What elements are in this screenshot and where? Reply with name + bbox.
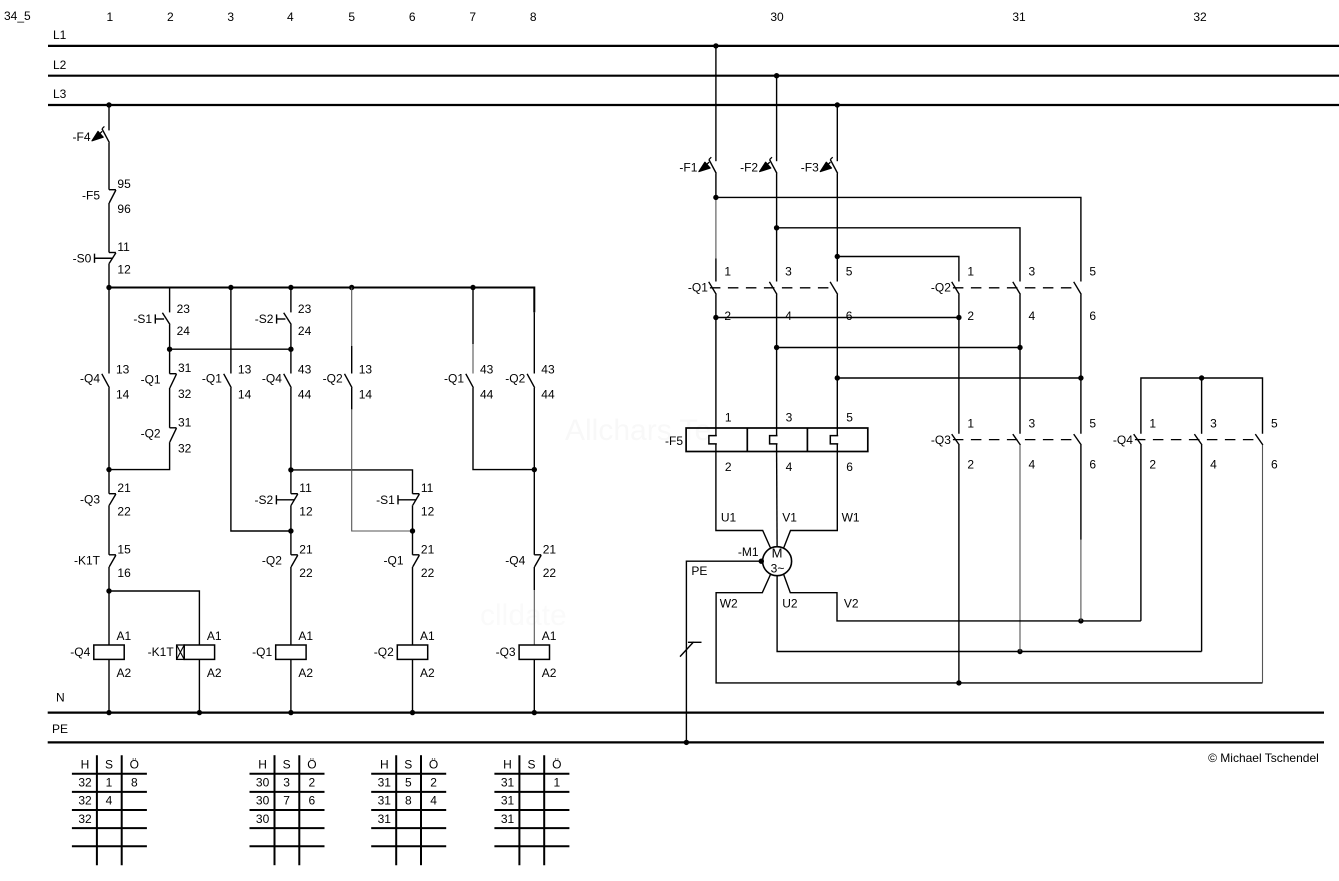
svg-text:34_5: 34_5 [4, 9, 31, 23]
svg-text:32: 32 [1193, 10, 1207, 24]
junction W2 bus / -Q3 pole1 [956, 680, 961, 685]
junction L1 / -F1 [713, 43, 718, 48]
svg-text:1: 1 [967, 417, 974, 431]
svg-text:-F2: -F2 [740, 160, 758, 174]
wire node to -Q4 21 [533, 470, 535, 555]
junction PE rail / motor [684, 740, 689, 745]
wire -Q4 coil to N [108, 659, 110, 712]
label U1 [721, 510, 737, 524]
overload relay -F5 [665, 411, 868, 474]
svg-text:H: H [503, 757, 512, 771]
svg-text:A1: A1 [420, 629, 435, 643]
svg-text:-Q2: -Q2 [323, 372, 343, 386]
svg-text:21: 21 [543, 542, 557, 556]
wire branch to -K1T coil [109, 591, 199, 645]
svg-text:13: 13 [359, 362, 373, 376]
svg-text:A2: A2 [117, 666, 132, 680]
wire -Q4 22 to -Q3 coil lower [533, 590, 535, 645]
wire -F5.6 to motor W1 [784, 452, 838, 549]
wire L2 rail [48, 75, 1339, 77]
contactor -Q2 pole 1-2 [931, 264, 975, 323]
label U2 [782, 597, 798, 611]
breaker -F4 [73, 126, 110, 144]
pushbutton -S2 11-12 [255, 481, 313, 518]
wire motor V2 to bus [784, 574, 1141, 621]
coil -Q1 [252, 629, 313, 680]
wire L3 to -F3 [836, 105, 838, 161]
svg-text:Ö: Ö [307, 757, 316, 771]
wire node to -Q1 21 [412, 531, 414, 555]
contact -Q2 21-22 [262, 542, 313, 580]
svg-text:V1: V1 [782, 510, 797, 524]
svg-text:H: H [258, 757, 267, 771]
svg-text:6: 6 [1089, 457, 1096, 471]
junction col1 / holding branch [106, 467, 111, 472]
svg-text:3: 3 [1029, 417, 1036, 431]
wire -F4 to -F5 [108, 143, 110, 190]
svg-text:6: 6 [846, 460, 853, 474]
svg-text:12: 12 [299, 505, 313, 519]
wire rail to -Q2 13 lower [351, 346, 353, 374]
svg-text:21: 21 [299, 542, 313, 556]
label L2 [53, 58, 67, 72]
svg-text:2: 2 [167, 10, 174, 24]
contact -Q4 13-14 [80, 362, 130, 401]
svg-text:-K1T: -K1T [74, 554, 101, 568]
wire -Q3 coil to N [533, 659, 535, 712]
svg-text:2: 2 [967, 457, 974, 471]
motor -M1 [738, 545, 792, 576]
svg-text:31: 31 [178, 415, 192, 429]
svg-text:-Q2: -Q2 [505, 372, 525, 386]
svg-text:2: 2 [1149, 457, 1156, 471]
svg-text:-F5: -F5 [82, 188, 100, 202]
wire -Q2.2 to -Q3 pole1 [958, 295, 960, 434]
svg-text:31: 31 [501, 794, 515, 808]
junction N rail / -Q2 coil [410, 710, 415, 715]
junction -Q1.6 / tie [835, 375, 840, 380]
contact -Q2 31-32 [141, 415, 192, 455]
svg-text:30: 30 [256, 794, 270, 808]
wire -S1 12 to node [412, 505, 414, 531]
svg-text:6: 6 [1089, 309, 1096, 323]
wire -Q1 32 to -Q2 31 [169, 388, 171, 428]
wire -Q2.4 to -Q3 pole3 [1019, 295, 1021, 434]
junction coil branch -Q4/-K1T [106, 588, 111, 593]
svg-text:30: 30 [256, 812, 270, 826]
svg-text:2: 2 [724, 309, 731, 323]
wire -F5.4 to motor V1 [776, 452, 779, 547]
pushbutton -S1 23-24 [133, 302, 190, 338]
svg-text:-Q4: -Q4 [80, 372, 100, 386]
svg-text:4: 4 [1029, 457, 1036, 471]
svg-text:PE: PE [52, 722, 68, 736]
junction -Q2.6 / tie [1078, 375, 1083, 380]
svg-text:A2: A2 [420, 666, 435, 680]
wire -Q2.6 to -Q3 pole5 [1080, 295, 1082, 434]
wire -Q2 coil to N [412, 659, 414, 712]
svg-text:31: 31 [378, 794, 392, 808]
svg-text:4: 4 [786, 460, 793, 474]
pushbutton -S0 11-12 [73, 240, 131, 277]
junction -Q1.2 / tie [713, 315, 718, 320]
contactor -Q3 pole 3-4 [1013, 417, 1036, 472]
wire tie -Q1.4 to -Q2.4 [777, 347, 1020, 349]
svg-text:1: 1 [1149, 417, 1156, 431]
wire N rail [48, 711, 1324, 713]
wire feed L3 to -Q2 pole1 [837, 257, 959, 282]
labels column numbers 30 31 32 [770, 10, 1207, 24]
contact -Q2 43-44 [505, 362, 555, 401]
junction star bridge / -Q4 pole3 [1199, 375, 1204, 380]
svg-text:L3: L3 [53, 87, 67, 101]
svg-text:24: 24 [298, 324, 312, 338]
svg-text:-Q2: -Q2 [141, 427, 161, 441]
junction N rail / -Q4 coil [106, 710, 111, 715]
svg-text:4: 4 [430, 794, 437, 808]
svg-text:L2: L2 [53, 58, 67, 72]
wire L3 to -F4 [108, 105, 110, 130]
svg-text:31: 31 [1012, 10, 1026, 24]
svg-text:-Q1: -Q1 [252, 645, 272, 659]
svg-text:5: 5 [846, 411, 853, 425]
wire node to -Q4 43 [290, 349, 292, 373]
svg-text:43: 43 [480, 362, 494, 376]
svg-text:95: 95 [117, 177, 131, 191]
svg-text:22: 22 [117, 505, 131, 519]
svg-text:3: 3 [786, 411, 793, 425]
wire rail to -S2 [290, 288, 292, 313]
table contactor cross-reference 4 [494, 755, 569, 865]
junction -S2 bottom [288, 347, 293, 352]
wire -Q2 44 down [533, 388, 535, 470]
wire -Q1.6 to -F5 [836, 295, 838, 429]
svg-text:-Q3: -Q3 [496, 645, 516, 659]
svg-text:7: 7 [283, 794, 290, 808]
svg-text:14: 14 [116, 387, 130, 401]
svg-text:-Q1: -Q1 [383, 554, 403, 568]
wire L1 to -F1 [715, 46, 717, 161]
label PE [52, 722, 68, 736]
svg-text:32: 32 [178, 441, 192, 455]
contactor -Q1 pole 1-2 [688, 264, 732, 323]
wire node to -S2 11 [290, 470, 292, 494]
wire L2 to -F2 [776, 76, 778, 162]
contact -Q1 21-22 [383, 542, 434, 580]
svg-text:1: 1 [724, 264, 731, 278]
contact -Q1 43-44 [444, 362, 494, 401]
svg-text:N: N [56, 691, 65, 705]
svg-text:1: 1 [967, 264, 974, 278]
svg-text:23: 23 [177, 302, 191, 316]
junction L3 / -F3 [835, 102, 840, 107]
label sheet number 34_5 [4, 9, 31, 23]
wire motor W2 to bus [716, 574, 1262, 683]
svg-text:S: S [404, 757, 412, 771]
label W2 [720, 597, 738, 611]
wire control rail [109, 288, 534, 313]
svg-text:6: 6 [846, 309, 853, 323]
label V1 [782, 510, 797, 524]
svg-text:8: 8 [131, 776, 138, 790]
svg-text:-Q2: -Q2 [931, 281, 951, 295]
svg-text:4: 4 [1210, 457, 1217, 471]
svg-text:21: 21 [421, 542, 435, 556]
junction -Q2.2 / tie [956, 315, 961, 320]
wire node to -Q3 21 [108, 470, 110, 494]
wire -Q4 44 down [290, 388, 292, 470]
svg-text:16: 16 [117, 566, 131, 580]
svg-text:L1: L1 [53, 28, 67, 42]
svg-text:5: 5 [1271, 417, 1278, 431]
svg-text:4: 4 [106, 794, 113, 808]
svg-text:2: 2 [967, 309, 974, 323]
svg-text:-F4: -F4 [73, 130, 91, 144]
junction -F2 / feed to -Q2 pole3 [774, 225, 779, 230]
labels column numbers 1-8 [106, 10, 536, 24]
label V2 [844, 597, 859, 611]
svg-text:-Q3: -Q3 [80, 492, 100, 506]
contactor -Q4 linkage [1135, 439, 1259, 441]
contactor -Q2 pole 5-6 [1074, 264, 1097, 323]
wire -Q4 14 down [108, 388, 110, 470]
svg-text:U1: U1 [721, 510, 737, 524]
junction V2 bus / -Q3 pole5 [1078, 618, 1083, 623]
coil -Q2 [374, 629, 435, 680]
wire motor PE to PE rail [686, 561, 762, 742]
wire -Q3.6 down upper [1080, 445, 1082, 540]
table contactor cross-reference 1 [72, 755, 147, 865]
svg-text:V2: V2 [844, 597, 859, 611]
junction -S1 bottom [167, 347, 172, 352]
wire tie -Q1.6 to -Q2.6 [837, 377, 1081, 379]
svg-text:-S1: -S1 [376, 493, 395, 507]
wire tie -Q1.2 to -Q2.2 [716, 317, 959, 319]
coil -Q4 [70, 629, 131, 680]
contactor -Q4 pole 5-6 [1255, 417, 1278, 472]
svg-text:-F3: -F3 [801, 160, 819, 174]
wire -F1 to -Q1 pole1 upper [715, 174, 717, 198]
wire node to -Q2 21 [290, 531, 292, 555]
contactor -Q2 linkage [953, 287, 1077, 289]
svg-text:A1: A1 [542, 629, 557, 643]
wire rail to -S1 [169, 288, 171, 313]
svg-text:31: 31 [501, 812, 515, 826]
svg-text:S: S [283, 757, 291, 771]
label L1 [53, 28, 67, 42]
wire -Q2 14 to col6 [352, 409, 413, 531]
svg-text:12: 12 [421, 505, 435, 519]
svg-text:A1: A1 [298, 629, 313, 643]
contact -Q3 21-22 [80, 481, 131, 518]
svg-text:44: 44 [298, 387, 312, 401]
junction control rail / col7 [470, 285, 475, 290]
junction control rail / col5 [349, 285, 354, 290]
wire rail to -Q4 13 [108, 288, 110, 374]
svg-text:14: 14 [238, 387, 252, 401]
wire feed L2 to -Q2 pole3 [777, 228, 1020, 282]
pushbutton -S2 23-24 [255, 302, 312, 338]
svg-text:H: H [81, 757, 90, 771]
contactor -Q4 pole 1-2 [1113, 417, 1157, 472]
contactor -Q1 linkage [710, 287, 833, 289]
svg-text:3~: 3~ [771, 561, 785, 575]
svg-text:30: 30 [770, 10, 784, 24]
label copyright [1208, 751, 1319, 765]
junction col4 / -S1 branch [288, 467, 293, 472]
breaker -F1 [679, 157, 716, 174]
wire -Q3.6 down lower [1080, 540, 1082, 621]
svg-text:5: 5 [405, 776, 412, 790]
svg-text:Ö: Ö [130, 757, 139, 771]
contactor -Q4 pole 3-4 [1194, 417, 1217, 472]
svg-text:PE: PE [691, 564, 707, 578]
svg-text:-Q3: -Q3 [931, 433, 951, 447]
wire -S0 to control rail [108, 263, 110, 287]
wire -Q2 22 to -Q1 coil [290, 567, 292, 645]
wire -S2 to node [290, 325, 292, 350]
svg-text:12: 12 [117, 263, 131, 277]
svg-text:3: 3 [1029, 264, 1036, 278]
wire -F2 to -Q1 pole3 [776, 174, 778, 282]
svg-text:4: 4 [1029, 309, 1036, 323]
junction col8 [532, 467, 537, 472]
wire L1 rail [48, 45, 1339, 47]
svg-text:21: 21 [117, 481, 131, 495]
svg-text:32: 32 [78, 812, 92, 826]
svg-text:-Q4: -Q4 [262, 372, 282, 386]
wire -Q4 star bridge [1141, 378, 1263, 434]
wire -Q2 32 to col1 [109, 442, 170, 470]
svg-text:1: 1 [553, 776, 560, 790]
svg-text:-F1: -F1 [679, 160, 697, 174]
svg-text:5: 5 [1089, 264, 1096, 278]
wire to -S1 11 [291, 470, 413, 494]
svg-text:5: 5 [1089, 417, 1096, 431]
svg-text:H: H [380, 757, 389, 771]
wire -Q1 coil to N [290, 659, 292, 712]
svg-text:22: 22 [421, 566, 435, 580]
wire rail to -Q1 43 lower [472, 344, 474, 374]
svg-text:30: 30 [256, 776, 270, 790]
svg-text:31: 31 [178, 361, 192, 375]
wire -F1 to -Q1 pole1 lower [715, 259, 717, 282]
wire star bridge to -Q4 pole3 [1201, 378, 1203, 434]
svg-text:-Q4: -Q4 [505, 554, 525, 568]
wire node to -Q4 coil [108, 591, 110, 645]
breaker -F2 [740, 157, 777, 174]
wire -Q2 14 stub [351, 388, 353, 410]
svg-text:32: 32 [78, 776, 92, 790]
svg-text:-S0: -S0 [73, 251, 92, 265]
svg-text:-Q1: -Q1 [444, 372, 464, 386]
watermark [480, 414, 711, 632]
svg-text:A2: A2 [207, 666, 222, 680]
svg-text:3: 3 [227, 10, 234, 24]
svg-text:96: 96 [117, 202, 131, 216]
wire -Q3.2 down [958, 445, 960, 683]
svg-text:M: M [772, 546, 783, 561]
junction col4 seal-in [288, 528, 293, 533]
junction U2 bus / -Q3 pole3 [1017, 649, 1022, 654]
svg-text:-F5: -F5 [665, 434, 683, 448]
svg-text:1: 1 [106, 776, 113, 790]
svg-text:7: 7 [469, 10, 476, 24]
table contactor cross-reference 2 [250, 755, 325, 865]
svg-text:13: 13 [116, 362, 130, 376]
svg-text:-K1T: -K1T [148, 645, 175, 659]
label L3 [53, 87, 67, 101]
svg-text:-Q1: -Q1 [688, 281, 708, 295]
contactor -Q2 pole 3-4 [1013, 264, 1036, 323]
svg-text:23: 23 [298, 302, 312, 316]
svg-text:© Michael Tschendel: © Michael Tschendel [1208, 751, 1319, 765]
svg-text:44: 44 [480, 387, 494, 401]
svg-text:43: 43 [541, 362, 555, 376]
svg-text:-Q2: -Q2 [374, 645, 394, 659]
svg-text:-Q1: -Q1 [202, 372, 222, 386]
svg-text:13: 13 [238, 362, 252, 376]
wire rail to -Q2 13 upper [351, 288, 353, 347]
svg-text:8: 8 [530, 10, 537, 24]
contact -Q4 43-44 [262, 362, 312, 401]
svg-text:Ö: Ö [552, 757, 561, 771]
wire -K1T 16 to node [108, 567, 110, 591]
earth mark on PE conductor [680, 642, 702, 657]
wire -F5.2 to motor U1 [716, 452, 771, 549]
junction control rail / col1 [106, 285, 111, 290]
contactor -Q1 pole 3-4 [769, 264, 792, 323]
svg-text:6: 6 [1271, 457, 1278, 471]
contactor -Q3 pole 1-2 [931, 417, 975, 472]
wire -Q3 22 to -K1T 15 [108, 505, 110, 555]
svg-text:clldate: clldate [480, 599, 567, 632]
svg-text:2: 2 [725, 460, 732, 474]
junction control rail / col4 [288, 285, 293, 290]
svg-text:A2: A2 [542, 666, 557, 680]
junction motor PE terminal [759, 559, 764, 564]
wire U2 bus to -Q4 pole3 [1201, 445, 1203, 652]
pushbutton -S1 11-12 [376, 481, 434, 518]
overload contact -F5 95/96 [82, 177, 131, 216]
contact -Q4 21-22 [505, 542, 556, 580]
contactor -Q1 pole 5-6 [830, 264, 853, 323]
wire -Q1.2 to -F5 [715, 295, 717, 429]
wire -Q1.4 to -F5 [776, 295, 778, 429]
svg-text:Allchars Te: Allchars Te [565, 414, 711, 447]
wire -Q1 14 to col4 [231, 388, 291, 531]
wire col8 to -Q2 43 [533, 312, 535, 373]
svg-text:2: 2 [430, 776, 437, 790]
junction -Q2.4 / tie [1017, 345, 1022, 350]
wire motor U2 to bus [777, 576, 1202, 652]
svg-text:31: 31 [501, 776, 515, 790]
svg-text:6: 6 [409, 10, 416, 24]
svg-text:32: 32 [78, 794, 92, 808]
svg-text:U2: U2 [782, 597, 798, 611]
svg-text:31: 31 [378, 812, 392, 826]
svg-text:5: 5 [348, 10, 355, 24]
label N [56, 691, 65, 705]
contactor -Q3 pole 5-6 [1074, 417, 1097, 472]
junction -F3 / feed to -Q2 pole1 [835, 254, 840, 259]
junction -F1 / feed to -Q2 pole5 [713, 195, 718, 200]
svg-text:S: S [105, 757, 113, 771]
svg-text:Ö: Ö [429, 757, 438, 771]
svg-text:1: 1 [725, 411, 732, 425]
wire W2 bus to -Q4 pole5 [1262, 445, 1264, 683]
svg-text:11: 11 [117, 240, 130, 254]
